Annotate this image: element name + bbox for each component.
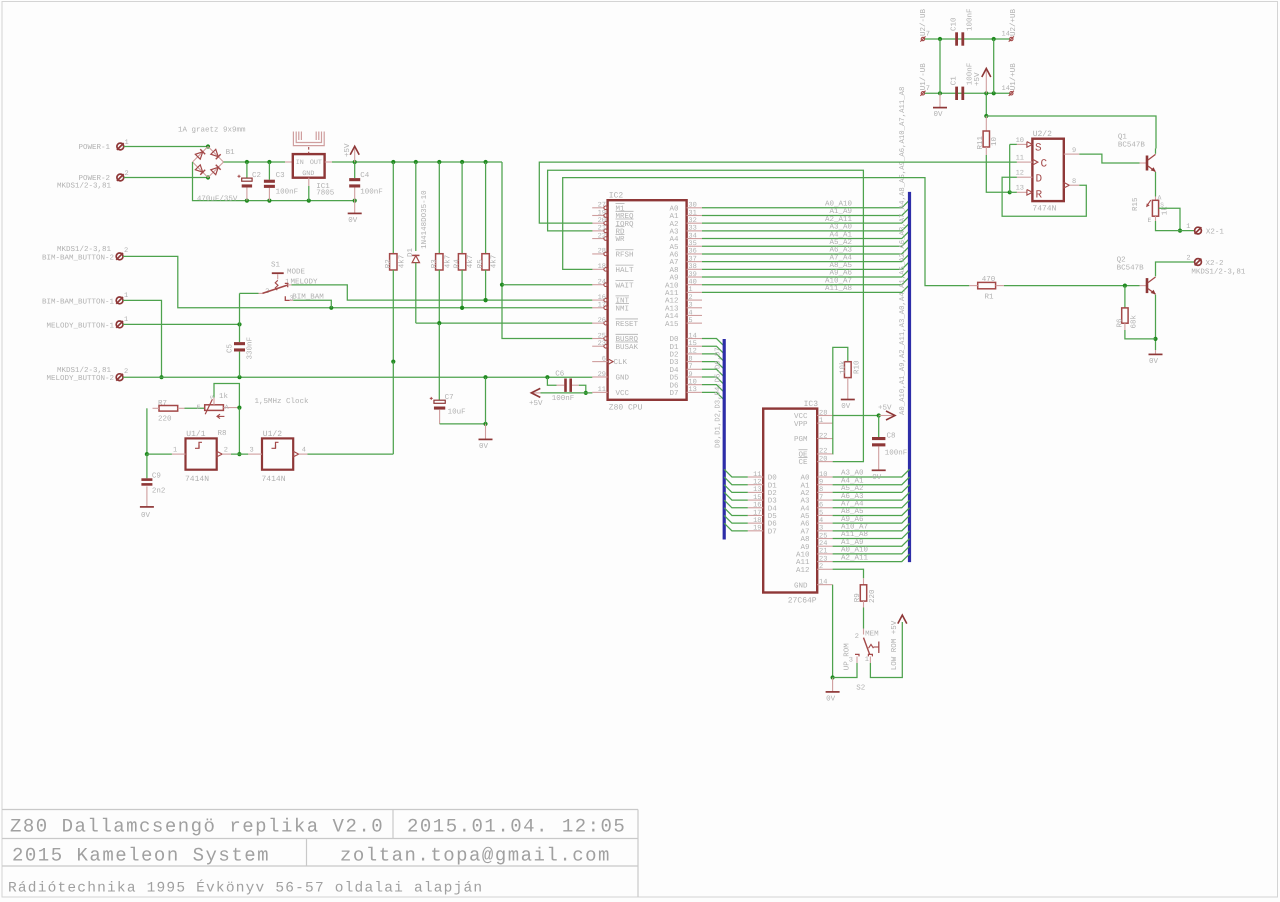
svg-text:R8: R8 — [218, 429, 227, 438]
svg-text:0V: 0V — [1149, 357, 1159, 366]
svg-text:1: 1 — [124, 316, 128, 324]
svg-text:2: 2 — [819, 563, 823, 571]
svg-text:D: D — [1036, 173, 1043, 185]
svg-text:A12: A12 — [796, 566, 810, 575]
svg-text:0V: 0V — [934, 110, 944, 119]
svg-text:HALT: HALT — [616, 267, 635, 275]
svg-text:BC547B: BC547B — [1117, 264, 1145, 273]
svg-text:B1: B1 — [226, 149, 236, 157]
svg-text:MKDS1/2-3,81: MKDS1/2-3,81 — [1191, 267, 1246, 276]
svg-text:1N4148DO35-10: 1N4148DO35-10 — [420, 190, 429, 249]
svg-text:100nF: 100nF — [885, 448, 908, 457]
svg-text:10k: 10k — [838, 360, 847, 374]
svg-text:10uF: 10uF — [448, 408, 466, 417]
svg-text:10: 10 — [1016, 137, 1024, 145]
svg-text:19: 19 — [753, 525, 761, 533]
svg-text:2: 2 — [124, 368, 128, 376]
svg-text:C10: C10 — [949, 17, 958, 31]
svg-text:A2_A11: A2_A11 — [825, 215, 853, 224]
svg-text:+5V: +5V — [344, 143, 352, 157]
svg-text:IC2: IC2 — [609, 191, 624, 200]
svg-text:100nF: 100nF — [552, 394, 575, 403]
svg-text:C6: C6 — [555, 370, 565, 379]
svg-text:D0: D0 — [669, 335, 679, 344]
svg-text:A6: A6 — [800, 520, 810, 529]
svg-text:A9: A9 — [669, 274, 678, 283]
svg-text:0V: 0V — [479, 442, 489, 451]
svg-text:330nF: 330nF — [246, 337, 255, 360]
svg-text:GND: GND — [616, 374, 630, 383]
svg-text:1,5MHz Clock: 1,5MHz Clock — [255, 397, 310, 406]
svg-text:U1/2: U1/2 — [263, 430, 282, 439]
svg-text:OE: OE — [798, 451, 808, 460]
svg-text:D0,D1,D2,D3,D4,D5,D6,D7: D0,D1,D2,D3,D4,D5,D6,D7 — [715, 347, 723, 448]
svg-text:U1/+UB: U1/+UB — [1009, 63, 1018, 91]
svg-text:+5V: +5V — [529, 400, 543, 408]
svg-text:IORQ: IORQ — [616, 220, 635, 229]
svg-text:11: 11 — [1016, 155, 1024, 163]
svg-text:A8_A5: A8_A5 — [829, 261, 852, 270]
svg-text:220: 220 — [868, 589, 877, 603]
svg-text:MODE: MODE — [287, 268, 306, 277]
svg-text:A12: A12 — [665, 297, 679, 306]
svg-text:C: C — [1041, 158, 1048, 170]
svg-text:U2/2: U2/2 — [1033, 130, 1052, 139]
svg-text:A3_A0: A3_A0 — [829, 223, 852, 232]
svg-text:MKDS1/2-3,81: MKDS1/2-3,81 — [57, 366, 112, 375]
svg-text:R9: R9 — [853, 593, 862, 602]
svg-text:C9: C9 — [152, 472, 161, 481]
svg-text:S: S — [1035, 143, 1042, 155]
svg-text:2015 Kameleon System: 2015 Kameleon System — [12, 845, 270, 867]
svg-text:A2: A2 — [800, 489, 809, 498]
svg-text:9: 9 — [1072, 147, 1076, 155]
svg-text:C1: C1 — [949, 76, 958, 86]
svg-text:11: 11 — [598, 386, 606, 394]
svg-text:VCC: VCC — [616, 389, 630, 398]
svg-text:A11_A8: A11_A8 — [841, 530, 868, 539]
svg-text:MELODY_BUTTON-2: MELODY_BUTTON-2 — [46, 374, 114, 383]
svg-text:470uF/35V: 470uF/35V — [197, 194, 238, 203]
svg-text:1: 1 — [173, 447, 177, 455]
svg-text:2: 2 — [125, 170, 129, 178]
svg-text:22: 22 — [598, 232, 606, 240]
svg-text:7414N: 7414N — [185, 475, 209, 484]
svg-text:100nF: 100nF — [360, 188, 383, 197]
svg-text:R10: R10 — [852, 360, 861, 374]
svg-text:A0_A10,A1_A9,A2_A11,A3_A0,A4_A: A0_A10,A1_A9,A2_A11,A3_A0,A4_A1,A5_A2,A6… — [899, 87, 907, 415]
svg-text:C3: C3 — [276, 171, 286, 180]
svg-text:S: S — [210, 395, 217, 399]
svg-text:1: 1 — [125, 139, 129, 147]
svg-text:D7: D7 — [768, 528, 777, 536]
svg-text:28: 28 — [598, 248, 606, 256]
svg-text:A1_A9: A1_A9 — [829, 207, 852, 216]
svg-text:68k: 68k — [1129, 314, 1138, 328]
svg-text:20: 20 — [819, 455, 827, 463]
svg-text:C5: C5 — [226, 343, 235, 353]
svg-text:2: 2 — [224, 447, 228, 455]
svg-text:2: 2 — [124, 247, 128, 255]
svg-text:A6_A3: A6_A3 — [841, 492, 864, 501]
svg-text:U2/-UB: U2/-UB — [919, 8, 928, 36]
svg-text:1: 1 — [1186, 223, 1190, 231]
svg-text:R1: R1 — [985, 294, 995, 302]
svg-text:MEM: MEM — [865, 631, 879, 639]
svg-text:2n2: 2n2 — [152, 487, 166, 496]
svg-text:A: A — [225, 404, 229, 411]
svg-text:A1_A9: A1_A9 — [841, 538, 864, 547]
svg-text:2015.01.04. 12:05: 2015.01.04. 12:05 — [407, 816, 626, 838]
svg-text:zoltan.topa@gmail.com: zoltan.topa@gmail.com — [340, 845, 611, 867]
svg-text:R6: R6 — [1115, 318, 1124, 328]
svg-text:POWER-1: POWER-1 — [78, 143, 110, 152]
svg-text:VCC: VCC — [794, 412, 808, 421]
svg-text:220: 220 — [158, 415, 172, 424]
svg-text:13: 13 — [1016, 185, 1024, 193]
svg-text:A3: A3 — [800, 497, 810, 506]
svg-text:IC3: IC3 — [804, 400, 819, 409]
svg-text:BUSAK: BUSAK — [616, 343, 639, 352]
svg-text:D2: D2 — [669, 351, 678, 360]
svg-text:0V: 0V — [826, 694, 836, 703]
svg-text:100nF: 100nF — [966, 8, 975, 31]
svg-text:7414N: 7414N — [262, 475, 286, 484]
svg-text:RESET: RESET — [616, 320, 639, 329]
svg-text:4k7: 4k7 — [466, 255, 475, 269]
svg-text:0V: 0V — [841, 402, 851, 411]
svg-text:27C64P: 27C64P — [788, 596, 817, 605]
svg-text:22: 22 — [819, 432, 827, 440]
svg-text:CE: CE — [798, 458, 808, 467]
svg-text:WAIT: WAIT — [616, 282, 635, 290]
svg-text:A10_A7: A10_A7 — [841, 523, 868, 532]
svg-text:A8: A8 — [800, 535, 809, 544]
svg-text:A: A — [1158, 195, 1162, 202]
svg-text:D6: D6 — [669, 381, 679, 390]
svg-text:+5V: +5V — [878, 404, 892, 412]
svg-text:14: 14 — [819, 578, 827, 586]
svg-text:A0: A0 — [800, 474, 810, 483]
svg-text:13: 13 — [688, 386, 696, 394]
svg-text:1k: 1k — [1161, 206, 1170, 216]
svg-text:R2: R2 — [384, 259, 393, 268]
svg-text:D6: D6 — [768, 520, 778, 529]
svg-text:7805: 7805 — [316, 189, 335, 198]
svg-text:29: 29 — [598, 371, 606, 379]
svg-text:R4: R4 — [454, 259, 462, 269]
svg-text:3: 3 — [250, 447, 254, 455]
svg-text:X2-1: X2-1 — [1206, 227, 1225, 236]
svg-text:A3: A3 — [669, 227, 679, 236]
svg-text:MREQ: MREQ — [616, 212, 635, 221]
svg-text:1k: 1k — [219, 392, 229, 401]
svg-text:18: 18 — [598, 263, 606, 271]
svg-text:GND: GND — [794, 581, 808, 590]
svg-text:A2_A11: A2_A11 — [841, 553, 869, 562]
svg-text:U1/-UB: U1/-UB — [919, 63, 928, 91]
svg-text:BIM-BAM_BUTTON-1: BIM-BAM_BUTTON-1 — [42, 297, 115, 306]
svg-text:A8_A5: A8_A5 — [841, 507, 864, 516]
svg-text:1: 1 — [124, 292, 128, 300]
svg-text:14: 14 — [1002, 85, 1010, 93]
svg-text:R11: R11 — [977, 135, 985, 149]
svg-text:A0_A10: A0_A10 — [841, 546, 869, 555]
svg-text:C2: C2 — [252, 171, 261, 180]
svg-text:A3_A0: A3_A0 — [841, 469, 864, 478]
svg-text:A6_A3: A6_A3 — [829, 246, 852, 255]
svg-text:UP ROM: UP ROM — [843, 643, 852, 671]
svg-text:2: 2 — [855, 633, 859, 641]
svg-text:PGM: PGM — [794, 435, 808, 444]
svg-text:OUT: OUT — [310, 159, 322, 167]
svg-text:3: 3 — [289, 295, 293, 303]
svg-text:X2-2: X2-2 — [1206, 259, 1224, 268]
svg-text:IN: IN — [296, 159, 304, 167]
svg-text:C8: C8 — [887, 432, 896, 441]
svg-text:A10: A10 — [665, 281, 679, 290]
svg-text:Z80 CPU: Z80 CPU — [609, 404, 643, 413]
svg-text:8: 8 — [1072, 178, 1076, 186]
svg-text:4k7: 4k7 — [397, 255, 406, 269]
svg-text:100nF: 100nF — [276, 188, 299, 197]
svg-text:+5V: +5V — [974, 72, 982, 86]
svg-text:BUSRQ: BUSRQ — [616, 335, 639, 344]
svg-text:A10_A7: A10_A7 — [825, 276, 852, 285]
svg-text:GND: GND — [302, 170, 314, 178]
svg-text:Z80 Dallamcsengö replika V2.0: Z80 Dallamcsengö replika V2.0 — [10, 816, 384, 838]
svg-text:S2: S2 — [856, 684, 865, 693]
svg-text:R: R — [1036, 189, 1043, 201]
svg-text:A9_A6: A9_A6 — [841, 515, 864, 524]
svg-text:6: 6 — [602, 355, 606, 363]
svg-text:D2: D2 — [768, 489, 777, 498]
svg-text:RFSH: RFSH — [616, 251, 634, 260]
svg-text:1: 1 — [865, 656, 869, 664]
svg-text:10: 10 — [990, 136, 999, 146]
svg-text:BIM-BAM_BUTTON-2: BIM-BAM_BUTTON-2 — [42, 253, 114, 262]
svg-text:A0_A10: A0_A10 — [825, 200, 853, 209]
svg-text:LOW ROM +5V: LOW ROM +5V — [890, 620, 899, 670]
svg-text:VPP: VPP — [794, 421, 808, 429]
svg-text:2: 2 — [1186, 254, 1190, 262]
svg-text:0V: 0V — [872, 473, 882, 482]
svg-text:23: 23 — [598, 340, 606, 348]
svg-text:A10: A10 — [796, 551, 810, 560]
svg-text:A9: A9 — [800, 543, 809, 552]
svg-text:D3: D3 — [768, 497, 778, 506]
svg-text:E: E — [1148, 217, 1152, 224]
svg-text:A11_A8: A11_A8 — [825, 284, 852, 293]
svg-text:A15: A15 — [665, 321, 679, 329]
svg-text:Rádiótechnika 1995 Évkönyv 56-: Rádiótechnika 1995 Évkönyv 56-57 oldalai… — [8, 879, 483, 897]
svg-text:U1/1: U1/1 — [186, 430, 205, 439]
svg-text:4k7: 4k7 — [490, 255, 499, 269]
svg-text:A5_A2: A5_A2 — [841, 484, 864, 493]
svg-text:0V: 0V — [141, 511, 151, 520]
svg-text:A9_A6: A9_A6 — [829, 269, 852, 278]
svg-text:S1: S1 — [271, 260, 281, 269]
svg-text:D3: D3 — [669, 358, 679, 367]
svg-text:C4: C4 — [360, 171, 370, 180]
svg-text:Q1: Q1 — [1118, 132, 1128, 141]
svg-text:Q2: Q2 — [1117, 255, 1126, 264]
svg-text:D7: D7 — [669, 390, 678, 398]
svg-text:7474N: 7474N — [1032, 205, 1056, 214]
svg-text:C7: C7 — [445, 393, 454, 402]
svg-text:CLK: CLK — [614, 358, 628, 367]
svg-text:17: 17 — [598, 302, 606, 310]
svg-text:BC547B: BC547B — [1118, 141, 1146, 150]
svg-text:A8: A8 — [669, 266, 678, 275]
svg-text:4k7: 4k7 — [443, 255, 452, 269]
svg-text:R5: R5 — [477, 259, 485, 269]
svg-text:A0: A0 — [669, 204, 679, 213]
svg-text:4: 4 — [302, 447, 306, 455]
svg-text:D0: D0 — [768, 474, 778, 483]
svg-text:A5_A2: A5_A2 — [829, 238, 852, 247]
svg-text:A6: A6 — [669, 251, 679, 260]
svg-text:WR: WR — [616, 236, 626, 244]
svg-text:14: 14 — [1002, 31, 1010, 39]
svg-text:U2/+UB: U2/+UB — [1009, 8, 1018, 36]
svg-text:R3: R3 — [430, 259, 439, 269]
svg-text:NMI: NMI — [616, 305, 630, 313]
svg-text:MKDS1/2-3,81: MKDS1/2-3,81 — [57, 245, 112, 254]
svg-text:E: E — [197, 404, 201, 411]
svg-text:A13: A13 — [665, 304, 679, 313]
svg-text:1: 1 — [819, 417, 823, 425]
svg-text:MELODY_BUTTON-1: MELODY_BUTTON-1 — [46, 321, 114, 330]
svg-text:MKDS1/2-3,81: MKDS1/2-3,81 — [57, 182, 112, 191]
svg-text:A2: A2 — [669, 220, 678, 229]
svg-text:26: 26 — [598, 317, 606, 325]
svg-text:D1: D1 — [407, 247, 415, 257]
svg-text:0V: 0V — [348, 216, 358, 225]
svg-text:24: 24 — [598, 279, 606, 287]
svg-text:5: 5 — [688, 317, 692, 325]
svg-text:1A graetz 9x9mm: 1A graetz 9x9mm — [178, 126, 246, 135]
svg-text:12: 12 — [1016, 170, 1024, 178]
svg-text:R15: R15 — [1132, 197, 1140, 211]
